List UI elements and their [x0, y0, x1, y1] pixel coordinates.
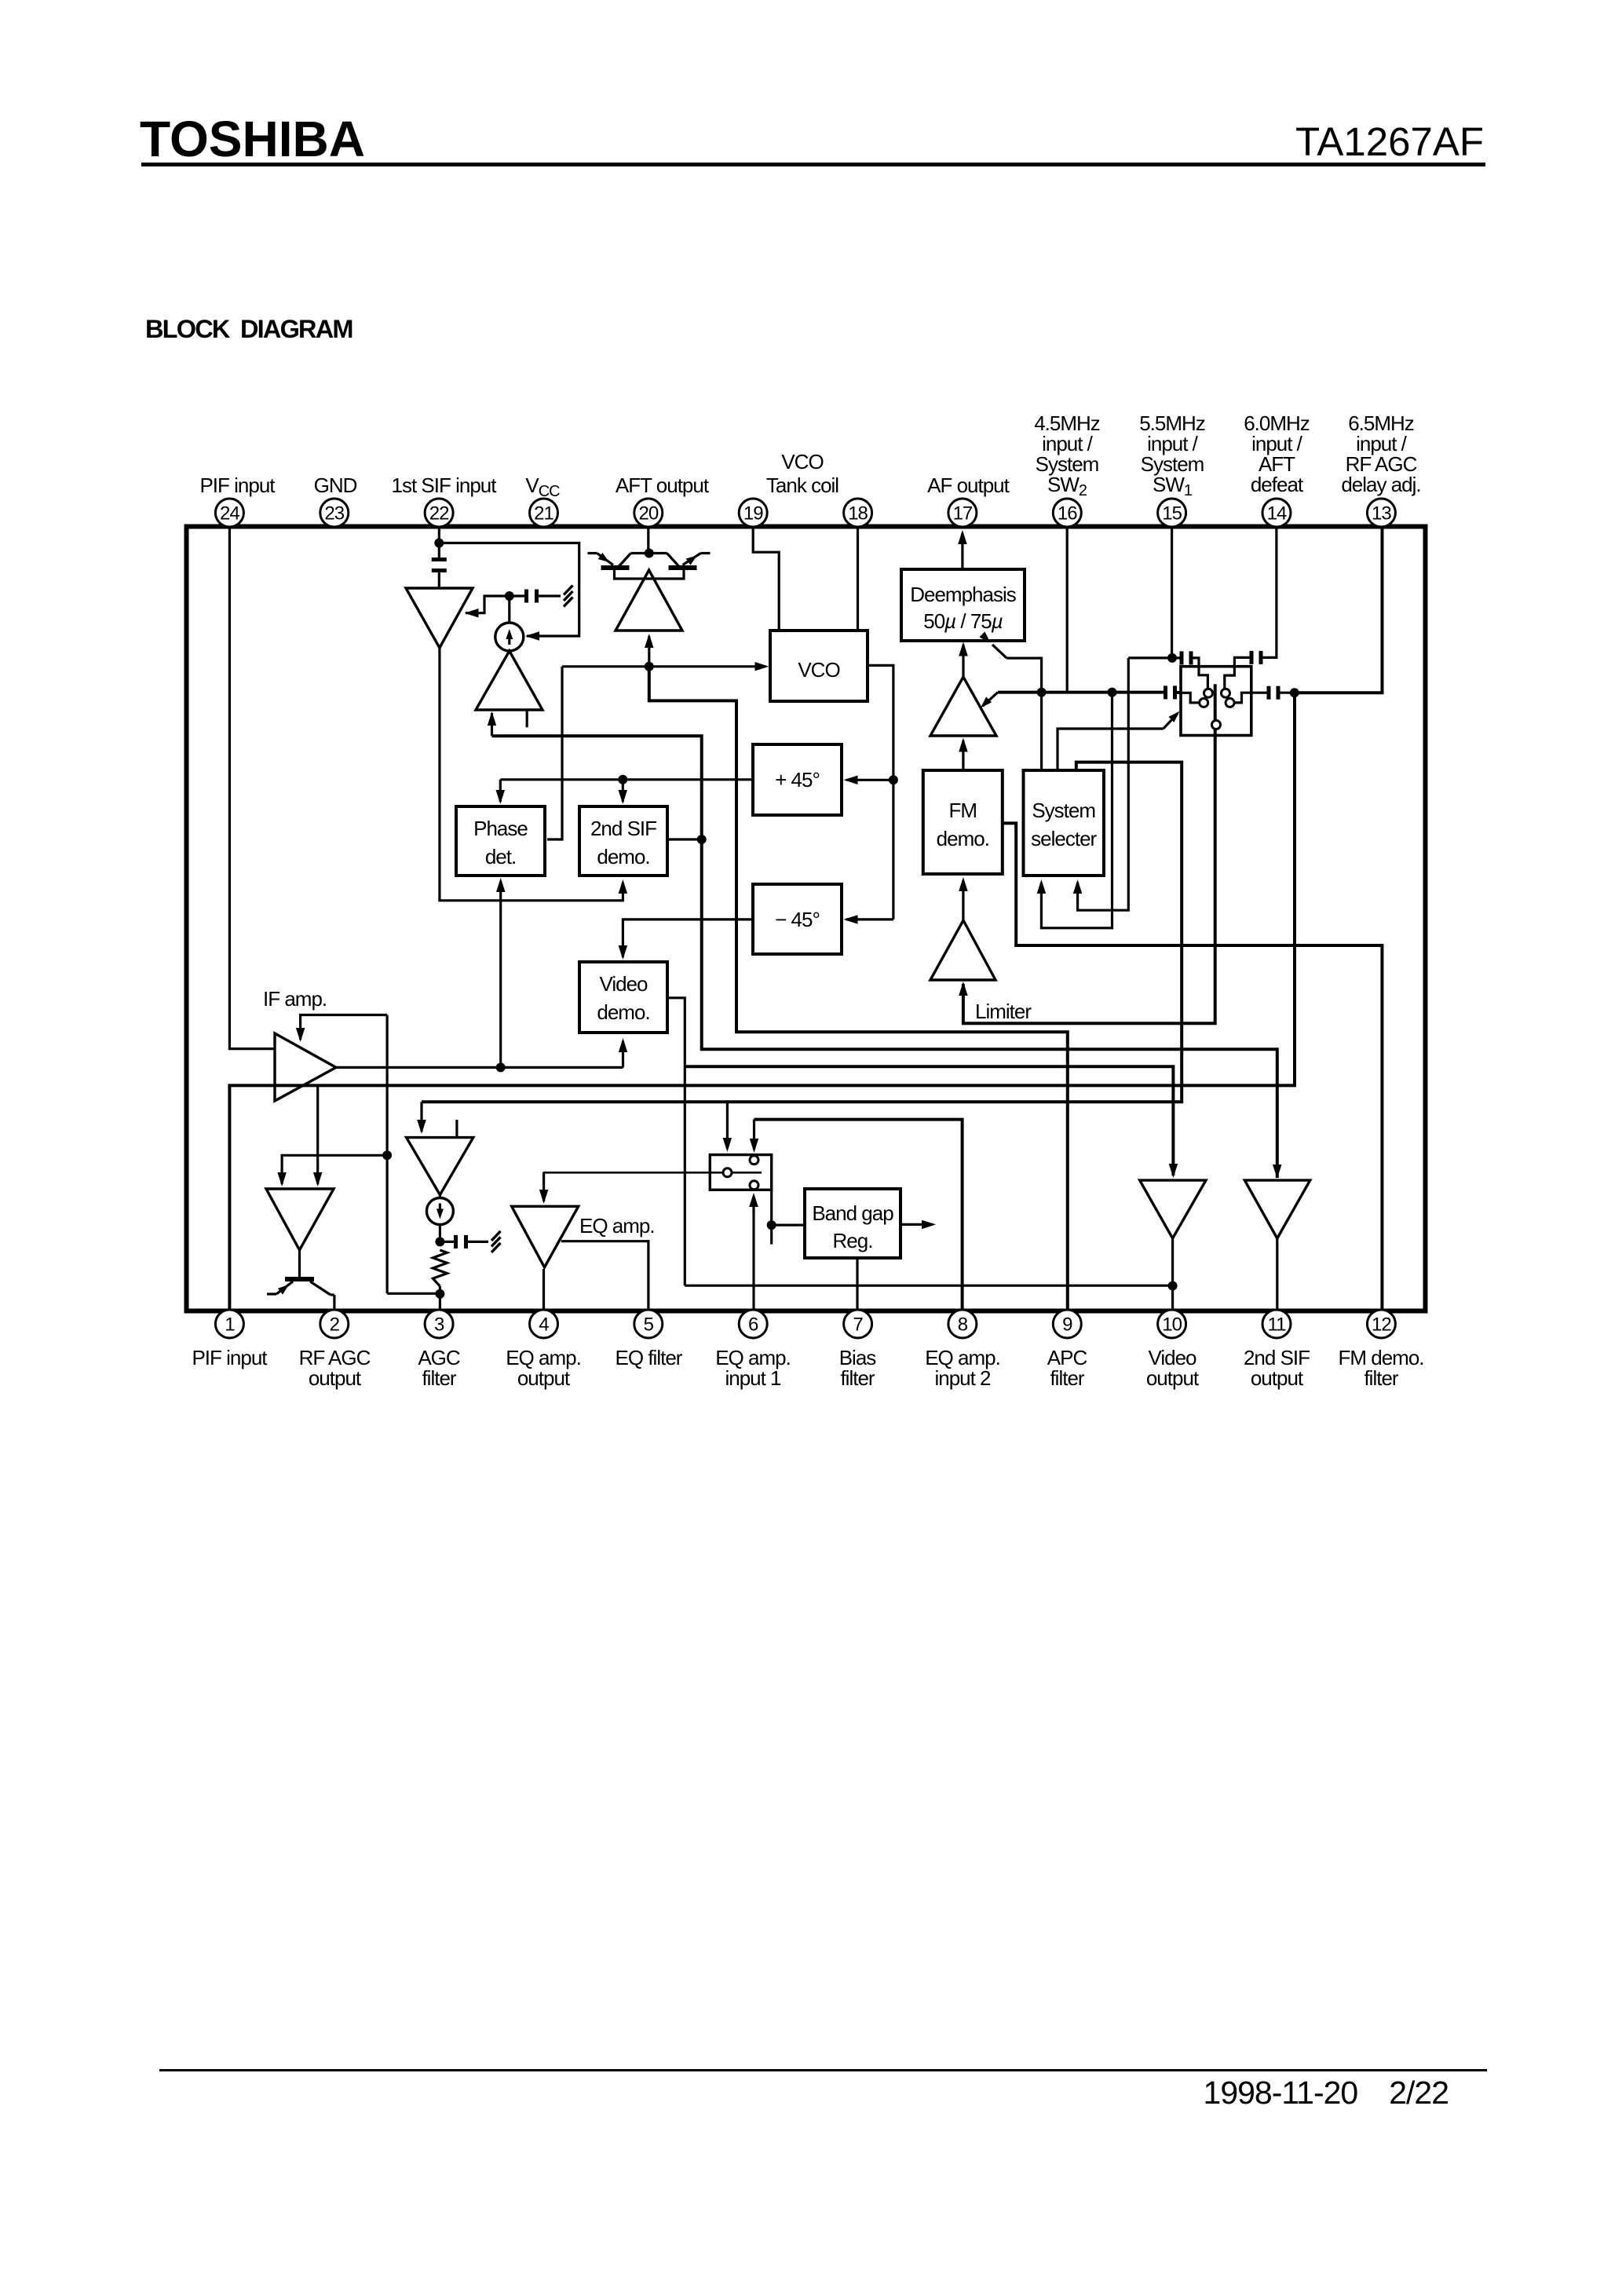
wire pin18 to VCO [857, 528, 859, 629]
wire pin20 down [647, 528, 649, 554]
block Deemphasis [901, 569, 1025, 641]
pin 17 [948, 499, 977, 527]
contact S1 [1204, 689, 1213, 697]
wire EQ thin [544, 1172, 762, 1174]
amp AGC filter [407, 1138, 473, 1195]
wire bandgap out [901, 1223, 933, 1226]
block Video demo. [579, 962, 667, 1033]
svg-text:2: 2 [330, 1314, 340, 1336]
wire VCO out [868, 665, 893, 919]
svg-text:delay adj.: delay adj. [1341, 473, 1420, 496]
wire AGCamp to CS2 [439, 1195, 441, 1198]
svg-text:3: 3 [434, 1314, 444, 1336]
svg-text:Phase: Phase [473, 817, 528, 840]
contact EQ botright [750, 1181, 758, 1190]
wire AFamp to deemph [962, 645, 964, 677]
wire C6.0 step [1225, 657, 1252, 688]
wire RFAGC input R [316, 1085, 319, 1184]
amp IF [275, 1033, 336, 1101]
svg-text:21: 21 [534, 503, 553, 525]
pin 21 [530, 499, 558, 527]
pin 2 [320, 1310, 349, 1338]
wire pin15 [1171, 528, 1173, 658]
svg-text:FM: FM [949, 799, 977, 822]
svg-text:5: 5 [644, 1314, 654, 1336]
wire SW2 to SS top [1040, 693, 1043, 769]
wire pin11 [1276, 1238, 1278, 1309]
wire AGC cap2 [440, 1241, 454, 1243]
wire C6.5 step [1234, 693, 1269, 703]
amp EQ [512, 1206, 579, 1267]
wire RFAGC input L [282, 1155, 387, 1184]
wire 4.5 inner [1181, 693, 1199, 703]
pin 14 [1262, 499, 1291, 527]
svg-text:output: output [1146, 1366, 1200, 1390]
wire SS control [1058, 729, 1164, 769]
svg-text:demo.: demo. [597, 845, 649, 868]
pin 22 [425, 499, 453, 527]
contact EQ left [723, 1168, 732, 1177]
svg-text:23: 23 [324, 503, 344, 525]
node pin15 [1167, 653, 1177, 663]
svg-text:EQ filter: EQ filter [616, 1346, 683, 1369]
svg-text:Band gap: Band gap [812, 1201, 893, 1225]
current source CS1 [495, 623, 524, 651]
wire +45 out [500, 778, 753, 781]
svg-text:4: 4 [539, 1314, 549, 1336]
svg-text:20: 20 [638, 503, 658, 525]
resistor R1 [433, 1250, 447, 1286]
wire pin19 to VCO [753, 528, 779, 629]
wire to -45 [846, 918, 893, 920]
wire pin22 down [438, 528, 440, 560]
node 6.5MHz [1290, 688, 1299, 697]
svg-text:selecter: selecter [1031, 827, 1097, 850]
wire keyer stub R [526, 710, 528, 727]
block 2nd SIF demo. [579, 806, 667, 876]
wire 1stSIF to 2ndSIF demo [440, 648, 623, 901]
wire FMdemo out [1003, 823, 1383, 1309]
wire bus1403 [422, 762, 1182, 1102]
svg-text:Tank coil: Tank coil [766, 473, 838, 497]
wire limiter up [962, 880, 964, 920]
footer rule [159, 2069, 1487, 2071]
capacitor C22 [432, 558, 447, 561]
wire video bus [685, 1066, 1173, 1175]
pin 12 [1367, 1310, 1395, 1338]
wire pin1 bus [229, 693, 1295, 1309]
wire pin16 [1066, 528, 1069, 693]
svg-text:Limiter: Limiter [975, 1000, 1032, 1023]
wire pin17 arrow [961, 533, 963, 569]
pin 20 [634, 499, 663, 527]
svg-text:9: 9 [1062, 1314, 1072, 1336]
svg-text:det.: det. [485, 845, 516, 868]
pin 9 [1053, 1310, 1081, 1338]
node AGC3 [435, 1237, 444, 1246]
wire video demo out [667, 998, 685, 1285]
pin 6 [739, 1310, 767, 1338]
block Phase det. [456, 806, 545, 876]
amp AGC keyer [476, 651, 542, 710]
wire RFAGC amp out [298, 1250, 301, 1277]
svg-text:Deemphasis: Deemphasis [910, 583, 1017, 606]
wire pin24 to IF amp [229, 528, 274, 1049]
svg-text:input 1: input 1 [725, 1366, 781, 1390]
pin 7 [844, 1310, 872, 1338]
wire pin6 [752, 1197, 754, 1309]
svg-text:PIF input: PIF input [192, 1346, 268, 1369]
svg-text:VCO: VCO [781, 450, 823, 473]
pin 23 [320, 499, 349, 527]
wire AGCamp arrow [420, 1102, 422, 1132]
wire C6.5 in [1280, 692, 1295, 694]
svg-text:demo.: demo. [597, 1000, 649, 1024]
svg-text:filter: filter [422, 1366, 456, 1390]
wire pin13 [1297, 528, 1383, 693]
wire video fb [685, 1285, 1170, 1287]
wire C5.5 in [1172, 656, 1182, 659]
transistor Q2 [285, 1277, 314, 1281]
svg-text:1: 1 [225, 1314, 235, 1336]
wire AGCamp stub [455, 1120, 458, 1138]
pin 10 [1158, 1310, 1186, 1338]
amp AFT output [616, 570, 682, 631]
wire deemph select [992, 645, 1006, 658]
svg-text:+ 45°: + 45° [775, 768, 820, 792]
node video out [1168, 1281, 1178, 1291]
svg-text:17: 17 [953, 503, 973, 525]
node AFT out [645, 662, 654, 671]
switch EQ input select [710, 1155, 771, 1190]
node SW2a [1037, 688, 1047, 697]
block FM demo. [923, 770, 1003, 874]
pin 16 [1053, 499, 1081, 527]
wire deemph select h [1006, 658, 1041, 693]
svg-text:7: 7 [853, 1314, 863, 1336]
wire SW2 loop [1041, 693, 1112, 928]
svg-text:16: 16 [1058, 503, 1077, 525]
pin 24 [215, 499, 243, 527]
block -45 [753, 884, 842, 954]
capacitor C4.5 [1164, 686, 1167, 699]
ground G1 [564, 586, 573, 595]
amp 2nd SIF output [1244, 1180, 1310, 1238]
svg-text:AFT output: AFT output [616, 473, 710, 497]
block Band gap Reg. [805, 1189, 901, 1258]
node bandgap [767, 1220, 776, 1230]
wire AGC cap [510, 594, 524, 597]
wire C5.5 step [1190, 658, 1207, 689]
switch system filter select [1181, 667, 1251, 736]
svg-text:IF amp.: IF amp. [263, 987, 327, 1011]
contact S2 [1222, 689, 1230, 697]
contact S3 [1200, 698, 1208, 707]
wire keyer bus to 2ndSIF out [492, 736, 1277, 1178]
svg-text:filter: filter [840, 1366, 875, 1390]
node 2ndSIF demo out [697, 835, 707, 844]
svg-text:defeat: defeat [1251, 473, 1304, 496]
wire EQ out [561, 1241, 648, 1309]
svg-text:11: 11 [1268, 1314, 1287, 1336]
svg-text:Reg.: Reg. [833, 1229, 873, 1252]
amp 1st SIF input [406, 588, 473, 648]
wire pin7 [856, 1258, 858, 1309]
svg-text:AF output: AF output [927, 473, 1010, 497]
contact S5 [1212, 721, 1221, 729]
svg-text:filter: filter [1364, 1366, 1398, 1390]
svg-text:24: 24 [220, 503, 239, 525]
wire to 2ndSIF top [622, 780, 624, 802]
wire AGC feedback [301, 1015, 388, 1040]
header rule [141, 163, 1485, 166]
svg-text:22: 22 [429, 503, 449, 525]
svg-text:2nd SIF: 2nd SIF [590, 817, 656, 840]
wire pin10 [1171, 1238, 1174, 1309]
node +45 out [618, 775, 627, 784]
wire pin22 loop [439, 543, 579, 637]
pin 8 [948, 1310, 977, 1338]
pin 3 [425, 1310, 453, 1338]
svg-text:13: 13 [1372, 503, 1391, 525]
svg-text:12: 12 [1372, 1314, 1391, 1336]
node VCO out [889, 775, 898, 784]
capacitor C5.5 [1180, 651, 1184, 664]
wire 4.5MHz line [998, 691, 1164, 694]
wire EQswitch arrow1 [726, 1102, 729, 1149]
wire SW1 left [1128, 656, 1172, 659]
wire to +45 [846, 779, 893, 781]
wire eqloop 1425 [754, 1120, 963, 1309]
svg-text:filter: filter [1050, 1366, 1084, 1390]
wire SW1 loop [1078, 658, 1129, 910]
pin 1 [215, 1310, 243, 1338]
svg-text:Video: Video [599, 972, 648, 996]
pin 19 [739, 499, 767, 527]
pin 15 [1158, 499, 1186, 527]
amp video output [1140, 1180, 1206, 1238]
wire pin14 [1262, 528, 1277, 657]
svg-text:14: 14 [1267, 503, 1287, 525]
node IF out [496, 1062, 506, 1072]
svg-text:− 45°: − 45° [775, 908, 820, 931]
capacitor C1stSIF [524, 590, 528, 603]
svg-text:1st SIF input: 1st SIF input [392, 473, 498, 497]
node SW2b [1108, 688, 1117, 697]
capacitor C6.5 [1267, 686, 1271, 700]
svg-text:18: 18 [848, 503, 868, 525]
node pin3 [435, 1289, 444, 1299]
svg-text:input 2: input 2 [934, 1366, 991, 1390]
wire AFT amp out [648, 636, 650, 667]
svg-text:TOSHIBA: TOSHIBA [140, 111, 365, 167]
wire AFT to phase det [547, 667, 562, 839]
node AGC1 [505, 591, 514, 601]
capacitor C3 [454, 1235, 458, 1249]
svg-text:VCO: VCO [798, 658, 839, 682]
wire APC to pin9 [649, 667, 1068, 1309]
svg-text:10: 10 [1162, 1314, 1182, 1336]
amp RF AGC [266, 1189, 334, 1250]
wire EQ input [542, 1172, 545, 1202]
svg-text:output: output [517, 1366, 571, 1390]
wire CS2 down [439, 1225, 441, 1242]
contact EQ topright [750, 1156, 758, 1164]
wire AGC to pin3 node [387, 1292, 437, 1295]
node pin22 [434, 539, 444, 548]
node AFT pair [645, 549, 654, 558]
svg-text:output: output [309, 1366, 362, 1390]
switch pole [963, 684, 1215, 1023]
wire IFout to phase det [499, 881, 502, 1067]
wire 2ndSIF demo out [667, 838, 702, 840]
wire to CS1 [508, 596, 510, 623]
wire AGC node into amp [466, 596, 506, 613]
svg-text:GND: GND [314, 473, 357, 497]
wire to phase det top [499, 780, 502, 802]
amp AF output [930, 677, 996, 736]
wire bandgap in [772, 1223, 805, 1226]
pin 13 [1367, 499, 1395, 527]
svg-text:System: System [1032, 799, 1095, 822]
wire pin4 [542, 1269, 545, 1309]
contact S4 [1226, 698, 1234, 707]
wire EQswitch arrow2 [753, 1120, 755, 1150]
wire bandgap stub [770, 1190, 773, 1244]
wire pin3 [439, 1286, 441, 1309]
svg-text:1998-11-20 2/22: 1998-11-20 2/22 [1204, 2075, 1448, 2111]
block VCO [770, 631, 868, 701]
block System selecter [1024, 770, 1105, 876]
svg-text:BLOCK DIAGRAM: BLOCK DIAGRAM [145, 315, 353, 343]
wire FMdemo to AFamp [962, 740, 964, 770]
block +45 [753, 744, 842, 815]
wire IF out [336, 1066, 623, 1069]
wire AFamp select [983, 693, 999, 707]
svg-text:EQ amp.: EQ amp. [579, 1214, 655, 1238]
svg-text:6: 6 [748, 1314, 758, 1336]
pin 11 [1262, 1310, 1291, 1338]
transistor pair AFT [631, 552, 667, 554]
pin 5 [634, 1310, 663, 1338]
svg-text:50µ / 75µ: 50µ / 75µ [923, 609, 1003, 633]
wire AGC vertical [386, 1015, 389, 1294]
amp limiter [930, 920, 995, 980]
capacitor C6.0 [1250, 651, 1254, 664]
current source CS2 [426, 1198, 453, 1225]
wire AFT to VCO [562, 665, 765, 667]
svg-text:19: 19 [743, 503, 763, 525]
node AGC2 [382, 1150, 392, 1160]
ground G2 [491, 1231, 501, 1241]
svg-text:output: output [1251, 1366, 1304, 1390]
wire keyer stub L [491, 713, 493, 736]
svg-text:TA1267AF: TA1267AF [1295, 119, 1484, 164]
svg-text:15: 15 [1162, 503, 1182, 525]
wire -45 out [623, 919, 753, 957]
svg-text:8: 8 [958, 1314, 968, 1336]
svg-text:PIF input: PIF input [199, 473, 276, 497]
pin 18 [844, 499, 872, 527]
svg-text:demo.: demo. [937, 827, 989, 850]
pin 4 [530, 1310, 558, 1338]
IC package border [187, 527, 1426, 1311]
